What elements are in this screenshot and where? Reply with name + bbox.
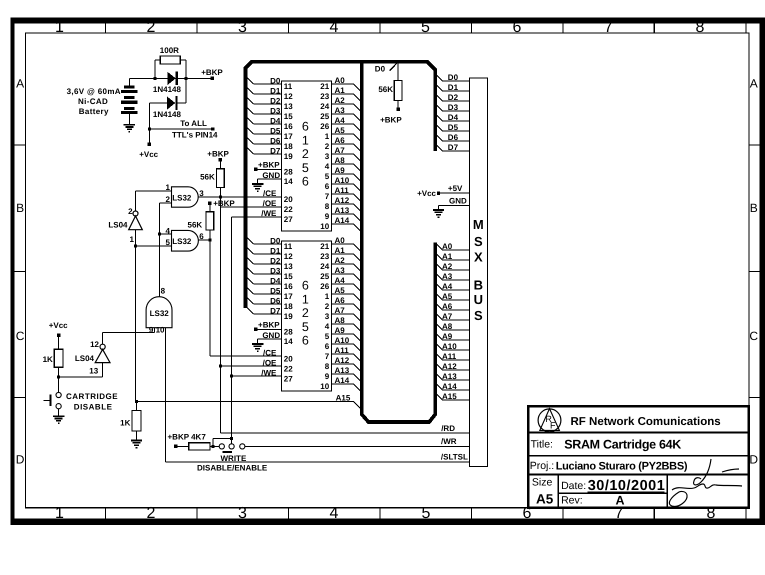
frame row letters <box>16 77 759 467</box>
node R6 to U3B out <box>208 239 211 242</box>
svg-text:2: 2 <box>325 302 330 311</box>
svg-text:4: 4 <box>325 322 330 331</box>
svg-text:1: 1 <box>325 132 330 141</box>
svg-text:+BKP: +BKP <box>201 68 223 77</box>
svg-text:A0: A0 <box>335 236 346 245</box>
wire U2 A3 pin 25 <box>332 273 354 275</box>
ground MSX <box>438 205 440 209</box>
inverter U4A LS04 pins 1,2 <box>133 211 138 216</box>
wire U2 A8 pin 4 <box>332 323 354 325</box>
svg-text:D6: D6 <box>270 136 281 145</box>
svg-text:19: 19 <box>284 312 293 321</box>
svg-text:A2: A2 <box>442 262 453 271</box>
svg-text:Ni-CAD: Ni-CAD <box>78 97 108 106</box>
svg-text:Title:: Title: <box>531 439 553 451</box>
wire U2 D4 pin 16 <box>246 276 254 284</box>
svg-text:A6: A6 <box>442 302 453 311</box>
wire /SLTSL <box>165 461 469 463</box>
wire U3B output pin6 <box>198 239 209 241</box>
svg-text:A7: A7 <box>442 312 453 321</box>
wire U1 A10 pin 6 <box>332 183 354 185</box>
svg-text:9: 9 <box>325 212 330 221</box>
svg-text:15: 15 <box>284 272 293 281</box>
svg-text:8: 8 <box>161 286 166 295</box>
svg-text:M: M <box>473 217 484 232</box>
svg-text:+Vcc: +Vcc <box>417 189 436 198</box>
svg-text:TTL's PIN14: TTL's PIN14 <box>172 130 218 139</box>
terminal +BKP U1 pin 28 <box>254 168 257 171</box>
wire U1 D5 pin 17 <box>246 126 254 134</box>
svg-text:21: 21 <box>320 82 329 91</box>
wire MSX A0 <box>435 243 442 250</box>
svg-text:7: 7 <box>325 192 330 201</box>
svg-text:18: 18 <box>284 142 293 151</box>
node R1 junction <box>57 375 60 378</box>
svg-text:A13: A13 <box>335 366 350 375</box>
svg-text:DISABLE/ENABLE: DISABLE/ENABLE <box>197 464 268 473</box>
svg-text:A3: A3 <box>335 266 346 275</box>
svg-text:56K: 56K <box>188 221 203 230</box>
svg-text:5: 5 <box>302 161 309 175</box>
wire U3B out riser to U2 /CE <box>209 240 211 356</box>
svg-text:3: 3 <box>238 505 247 522</box>
wire A15 net <box>136 400 353 402</box>
svg-text:A9: A9 <box>335 326 346 335</box>
wire MSX A6 <box>435 303 442 310</box>
svg-text:A15: A15 <box>442 392 457 401</box>
svg-text:WRITE: WRITE <box>221 454 247 463</box>
svg-text:4: 4 <box>330 505 339 522</box>
wire U1 A13 pin 9 <box>332 213 354 215</box>
node To-ALL junction <box>148 128 151 131</box>
wire U3C output pin8 riser <box>159 203 161 297</box>
svg-text:14: 14 <box>284 177 293 186</box>
svg-text:A7: A7 <box>335 306 346 315</box>
wire U1 D0 pin 11 <box>246 76 254 84</box>
wire MSX A5 <box>435 293 442 300</box>
SRAM U1 61256 <box>282 81 332 231</box>
wire U2 A9 pin 5 <box>332 333 354 335</box>
node D0 label leader <box>390 63 398 71</box>
svg-text:10: 10 <box>156 325 165 334</box>
svg-text:4K7: 4K7 <box>191 433 206 442</box>
wire U1 D2 pin 13 <box>246 96 254 104</box>
switch SW1 cartridge disable <box>58 377 60 393</box>
svg-text:A4: A4 <box>335 276 346 285</box>
svg-text:A10: A10 <box>335 176 350 185</box>
svg-text:6: 6 <box>325 342 330 351</box>
svg-text:6: 6 <box>302 175 309 189</box>
svg-text:A12: A12 <box>335 196 350 205</box>
svg-text:2: 2 <box>302 147 309 161</box>
wire U2 A14 pin 10 <box>332 383 354 385</box>
svg-text:B: B <box>16 201 24 215</box>
svg-text:DISABLE: DISABLE <box>74 403 113 412</box>
diode D1 1N4148 <box>155 77 168 79</box>
svg-text:A8: A8 <box>335 156 346 165</box>
svg-text:A10: A10 <box>335 336 350 345</box>
svg-text:D0: D0 <box>270 236 281 245</box>
wire /WE riser <box>231 217 233 444</box>
svg-text:S: S <box>474 234 483 249</box>
svg-text:5: 5 <box>325 332 330 341</box>
node /OE U2 junction <box>219 365 222 368</box>
svg-text:D7: D7 <box>270 146 281 155</box>
svg-text:A12: A12 <box>335 356 350 365</box>
svg-text:F: F <box>550 421 556 431</box>
svg-text:+Vcc: +Vcc <box>49 321 68 330</box>
wire MSX D5 <box>435 124 442 131</box>
terminal +Vcc battery <box>148 143 151 146</box>
resistor R6 56K pullup U3B out <box>208 202 211 205</box>
wire R1 to U4B input <box>59 376 103 378</box>
wire U1 A8 pin 4 <box>332 163 354 165</box>
resistor R1 1K <box>58 337 60 349</box>
svg-text:/SLTSL: /SLTSL <box>441 452 468 461</box>
wire U1 A14 pin 10 <box>332 223 354 225</box>
wire U1 A6 pin 2 <box>332 143 354 145</box>
svg-text:D0: D0 <box>448 73 459 82</box>
wire +5V <box>440 192 469 194</box>
svg-text:18: 18 <box>284 302 293 311</box>
svg-text:A6: A6 <box>335 136 346 145</box>
svg-text:13: 13 <box>284 102 293 111</box>
svg-text:2: 2 <box>147 19 156 36</box>
frame column numbers bottom <box>55 505 716 522</box>
svg-text:25: 25 <box>320 272 329 281</box>
svg-text:C: C <box>749 329 758 343</box>
svg-text:6: 6 <box>302 120 309 134</box>
drawing area border <box>25 33 749 508</box>
svg-text:27: 27 <box>284 374 293 383</box>
svg-text:D4: D4 <box>270 116 281 125</box>
svg-text:A0: A0 <box>335 76 346 85</box>
wire U2 /CE <box>210 355 282 357</box>
svg-text:12: 12 <box>284 252 293 261</box>
node A15 pulldown junction <box>135 400 138 403</box>
logo RF Network <box>538 409 561 432</box>
svg-text:A9: A9 <box>442 332 453 341</box>
connector J1 MSX BUS <box>469 78 487 467</box>
wire MSX A13 <box>435 373 442 380</box>
frame column numbers top <box>55 19 705 36</box>
svg-text:A15: A15 <box>336 394 351 403</box>
svg-text:X: X <box>474 250 483 265</box>
svg-text:A: A <box>750 77 758 91</box>
wire MSX A12 <box>435 363 442 370</box>
wire U2 D2 pin 13 <box>246 256 254 264</box>
wire MSX A7 <box>435 313 442 320</box>
svg-text:26: 26 <box>320 282 329 291</box>
wire /RD <box>220 432 469 434</box>
svg-text:D3: D3 <box>448 103 459 112</box>
ground R2 <box>131 440 142 442</box>
wire MSX D7 <box>435 144 442 151</box>
resistor R2 1K A15 pulldown <box>136 401 138 410</box>
svg-text:10: 10 <box>320 222 329 231</box>
svg-text:22: 22 <box>284 364 293 373</box>
svg-text:1: 1 <box>55 505 64 522</box>
svg-text:4: 4 <box>325 162 330 171</box>
wire MSX D2 <box>435 94 442 101</box>
wire U4B input <box>102 363 104 377</box>
battery label <box>67 87 121 116</box>
svg-text:A: A <box>16 77 24 91</box>
svg-text:GND: GND <box>262 171 280 180</box>
svg-text:Battery: Battery <box>79 107 109 116</box>
svg-text:D0: D0 <box>375 65 386 74</box>
wire U3C pin9 <box>154 328 156 333</box>
svg-text:+BKP: +BKP <box>258 320 280 329</box>
svg-text:9: 9 <box>149 325 154 334</box>
wire MSX A9 <box>435 333 442 340</box>
svg-text:22: 22 <box>284 205 293 214</box>
wire U2 A5 pin 1 <box>332 293 354 295</box>
terminal +BKP battery <box>211 77 214 80</box>
svg-text:D0: D0 <box>270 76 281 85</box>
wire U1 A4 pin 26 <box>332 123 354 125</box>
wire U2 D6 pin 18 <box>246 296 254 304</box>
svg-text:2: 2 <box>128 207 133 216</box>
wire U3A pin1 <box>136 190 172 192</box>
svg-text:5: 5 <box>325 172 330 181</box>
svg-text:1N4148: 1N4148 <box>153 110 182 119</box>
svg-text:A11: A11 <box>335 346 350 355</box>
svg-text:A14: A14 <box>335 216 350 225</box>
wire MSX D0 <box>435 74 442 81</box>
svg-text:6: 6 <box>199 232 204 241</box>
ground U2 pin 14 <box>258 338 282 340</box>
node R3 junction <box>212 445 215 448</box>
ground battery <box>128 114 130 124</box>
svg-text:D5: D5 <box>448 123 459 132</box>
wire U1 D1 pin 12 <box>246 86 254 94</box>
wire MSX A11 <box>435 353 442 360</box>
node U3B pin4 junction <box>158 233 161 236</box>
svg-text:/RD: /RD <box>441 424 455 433</box>
wire U1 A3 pin 25 <box>332 113 354 115</box>
svg-text:A7: A7 <box>335 146 346 155</box>
svg-text:C: C <box>16 329 25 343</box>
wire U2 /WE <box>232 375 282 377</box>
svg-text:27: 27 <box>284 215 293 224</box>
wire U2 A12 pin 8 <box>332 363 354 365</box>
svg-text:D1: D1 <box>448 83 459 92</box>
wire U1 A1 pin 23 <box>332 93 354 95</box>
SRAM U2 61256 <box>282 241 332 391</box>
wire U1 D4 pin 16 <box>246 116 254 124</box>
svg-text:1N4148: 1N4148 <box>153 85 182 94</box>
wire MSX D3 <box>435 104 442 111</box>
node battery-diode junction <box>153 77 156 80</box>
wire U4A output to U3A pin1 <box>135 191 137 211</box>
wire U2 D5 pin 17 <box>246 286 254 294</box>
wire MSX A2 <box>435 263 442 270</box>
svg-text:25: 25 <box>320 112 329 121</box>
wire U1 A7 pin 3 <box>332 153 354 155</box>
wire U1 A11 pin 7 <box>332 193 354 195</box>
svg-text:A5: A5 <box>335 126 346 135</box>
svg-text:A4: A4 <box>335 116 346 125</box>
svg-text:28: 28 <box>284 168 293 177</box>
signature <box>669 459 742 506</box>
battery BT1 3.6V Ni-CAD <box>124 86 134 89</box>
svg-text:/WR: /WR <box>441 437 457 446</box>
svg-text:D: D <box>749 453 758 467</box>
node R5 to /CE <box>219 196 222 199</box>
svg-text:3: 3 <box>325 312 330 321</box>
svg-text:+BKP: +BKP <box>207 149 229 158</box>
svg-text:A3: A3 <box>442 272 453 281</box>
wire To ALL TTLs PIN14 <box>149 128 212 130</box>
wire U4A input riser (A15) <box>135 230 137 402</box>
svg-text:+BKP: +BKP <box>258 160 280 169</box>
ground U1 pin 14 <box>258 178 282 180</box>
svg-text:3: 3 <box>238 19 247 36</box>
svg-text:17: 17 <box>284 132 293 141</box>
wire MSX GND <box>439 204 470 206</box>
svg-text:Size: Size <box>532 477 553 489</box>
node /WE U2 junction <box>230 375 233 378</box>
terminal +BKP of R4 <box>397 108 400 111</box>
svg-text:LS32: LS32 <box>172 237 192 246</box>
wire U2 D3 pin 15 <box>246 266 254 274</box>
svg-text:GND: GND <box>262 331 280 340</box>
svg-text:D6: D6 <box>270 296 281 305</box>
diode D2 1N4148 <box>149 102 167 104</box>
wire U2 D7 pin 19 <box>246 306 254 314</box>
wire U3B pin5 <box>136 245 172 247</box>
svg-text:10: 10 <box>320 382 329 391</box>
wire U1 D7 pin 19 <box>246 146 254 154</box>
wire U1 A5 pin 1 <box>332 133 354 135</box>
wire U3B pin4 <box>160 233 172 235</box>
svg-text:A13: A13 <box>442 372 457 381</box>
svg-text:A1: A1 <box>442 252 453 261</box>
svg-text:6: 6 <box>325 182 330 191</box>
svg-text:5: 5 <box>302 320 309 334</box>
wire U3C pin10 to /SLTSL <box>164 328 166 462</box>
svg-text:1: 1 <box>325 292 330 301</box>
svg-text:RF Network Comunications: RF Network Comunications <box>571 416 721 428</box>
svg-text:Luciano Sturaro (PY2BBS): Luciano Sturaro (PY2BBS) <box>556 461 688 473</box>
bus loop (thick data/address bus) <box>245 62 435 422</box>
resistor R5 56K /CE pullup <box>219 158 222 161</box>
svg-text:S: S <box>474 308 483 323</box>
svg-text:D: D <box>16 453 25 467</box>
svg-text:A11: A11 <box>335 186 350 195</box>
svg-text:D6: D6 <box>448 133 459 142</box>
svg-text:7: 7 <box>604 19 613 36</box>
svg-text:100R: 100R <box>160 46 179 55</box>
svg-text:23: 23 <box>320 252 329 261</box>
wire MSX A15 <box>435 393 442 400</box>
svg-text:11: 11 <box>284 82 293 91</box>
wire to +BKP terminal <box>186 77 213 79</box>
svg-text:D3: D3 <box>270 106 281 115</box>
svg-text:Date:: Date: <box>561 480 586 492</box>
svg-text:19: 19 <box>284 152 293 161</box>
svg-text:15: 15 <box>284 112 293 121</box>
svg-text:1: 1 <box>302 133 309 147</box>
svg-text:28: 28 <box>284 328 293 337</box>
svg-text:D5: D5 <box>270 126 281 135</box>
svg-text:A13: A13 <box>335 206 350 215</box>
svg-text:U: U <box>474 292 483 307</box>
svg-text:D4: D4 <box>448 113 459 122</box>
wire MSX A8 <box>435 323 442 330</box>
wire U1 A0 pin 21 <box>332 83 354 85</box>
svg-text:A14: A14 <box>335 376 350 385</box>
ground SW1 <box>58 409 60 416</box>
svg-text:23: 23 <box>320 92 329 101</box>
svg-text:1: 1 <box>130 235 135 244</box>
svg-text:6: 6 <box>302 334 309 348</box>
svg-text:7: 7 <box>325 352 330 361</box>
wire U2 A4 pin 26 <box>332 283 354 285</box>
svg-text:A1: A1 <box>335 246 346 255</box>
svg-text:2: 2 <box>147 505 156 522</box>
wire U2 A7 pin 3 <box>332 313 354 315</box>
svg-text:A9: A9 <box>335 166 346 175</box>
wire MSX A10 <box>435 343 442 350</box>
svg-text:D3: D3 <box>270 266 281 275</box>
svg-text:+BKP: +BKP <box>213 199 235 208</box>
svg-text:6: 6 <box>302 279 309 293</box>
wire U1 A12 pin 8 <box>332 203 354 205</box>
svg-text:D4: D4 <box>270 276 281 285</box>
terminal +BKP U2 pin 28 <box>254 328 257 331</box>
wire U1 D3 pin 15 <box>246 106 254 114</box>
wire U2 D1 pin 12 <box>246 246 254 254</box>
svg-text:A6: A6 <box>335 296 346 305</box>
svg-text:1: 1 <box>302 292 309 306</box>
wire U1 /CE from gate output <box>198 196 281 198</box>
svg-text:A14: A14 <box>442 382 457 391</box>
svg-text:+Vcc: +Vcc <box>139 150 158 159</box>
wire MSX D4 <box>435 114 442 121</box>
svg-text:20: 20 <box>284 354 293 363</box>
svg-text:3: 3 <box>325 152 330 161</box>
wire U2 A2 pin 24 <box>332 263 354 265</box>
svg-text:6: 6 <box>513 19 522 36</box>
inverter U4B LS04 pins 12,13 <box>100 344 105 349</box>
wire U2 A11 pin 7 <box>332 353 354 355</box>
svg-text:LS04: LS04 <box>75 354 95 363</box>
svg-text:D2: D2 <box>448 93 459 102</box>
svg-text:16: 16 <box>284 282 293 291</box>
svg-text:A5: A5 <box>442 292 453 301</box>
svg-text:Proj.:: Proj.: <box>530 460 555 472</box>
wire MSX A4 <box>435 283 442 290</box>
svg-text:8: 8 <box>325 362 330 371</box>
svg-text:+BKP: +BKP <box>168 433 190 442</box>
svg-text:8: 8 <box>696 19 705 36</box>
svg-text:A0: A0 <box>442 242 453 251</box>
wire U1 D6 pin 18 <box>246 136 254 144</box>
svg-text:56K: 56K <box>378 85 393 94</box>
wire U2 A10 pin 6 <box>332 343 354 345</box>
frame row ticks <box>15 144 26 146</box>
wire MSX D6 <box>435 134 442 141</box>
svg-text:+5V: +5V <box>448 184 463 193</box>
svg-text:16: 16 <box>284 122 293 131</box>
svg-text:13: 13 <box>89 366 98 375</box>
svg-text:17: 17 <box>284 292 293 301</box>
svg-text:A12: A12 <box>442 362 457 371</box>
svg-text:13: 13 <box>284 262 293 271</box>
wire U2 A1 pin 23 <box>332 253 354 255</box>
